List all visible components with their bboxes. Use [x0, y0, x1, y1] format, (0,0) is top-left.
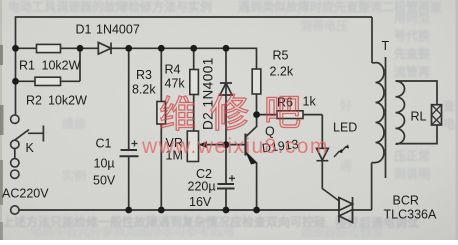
svg-text:C1: C1	[96, 137, 112, 151]
svg-text:实例: 实例	[62, 168, 86, 183]
svg-text:8.2k: 8.2k	[132, 83, 156, 97]
svg-text:RL: RL	[411, 110, 427, 124]
svg-text:AC220V: AC220V	[2, 187, 49, 201]
svg-text:维修: 维修	[62, 116, 87, 131]
svg-text:D1: D1	[76, 23, 92, 37]
svg-text:电路中各元件参数如图所示可参考选用: 电路中各元件参数如图所示可参考选用	[30, 223, 234, 238]
svg-text:则说明: 则说明	[394, 166, 430, 181]
svg-text:R5: R5	[273, 49, 289, 63]
svg-text:流管再: 流管再	[394, 64, 430, 79]
svg-text:修: 修	[210, 93, 249, 136]
svg-text:电: 电	[443, 116, 455, 131]
svg-text:www.weixiu8.com: www.weixiu8.com	[141, 135, 329, 158]
svg-text:R4: R4	[165, 63, 181, 77]
svg-text:用同型: 用同型	[393, 10, 430, 25]
svg-text:10k2W: 10k2W	[42, 59, 81, 73]
svg-text:吧: 吧	[264, 92, 301, 133]
svg-text:220µ: 220µ	[188, 180, 216, 194]
svg-text:电动工具调速器的故障检修方法与实例: 电动工具调速器的故障检修方法与实例	[8, 0, 212, 14]
svg-text:10k2W: 10k2W	[48, 94, 87, 108]
svg-text:T: T	[382, 39, 390, 53]
svg-text:先查整: 先查整	[394, 46, 430, 61]
svg-text:K: K	[26, 141, 35, 155]
svg-text:10µ: 10µ	[94, 157, 115, 171]
svg-text:通: 通	[340, 158, 352, 173]
svg-text:查: 查	[442, 98, 456, 113]
svg-text:TLC336A: TLC336A	[384, 208, 437, 222]
svg-text:1N4007: 1N4007	[96, 23, 140, 37]
svg-text:BCR: BCR	[393, 194, 419, 208]
svg-text:测得电压: 测得电压	[300, 18, 348, 33]
svg-text:R2: R2	[26, 94, 42, 108]
svg-text:压正常: 压正常	[394, 148, 430, 163]
svg-text:R3: R3	[136, 68, 152, 82]
svg-text:好: 好	[339, 98, 352, 113]
svg-text:2.2k: 2.2k	[270, 65, 294, 79]
svg-text:调速器即可恢复: 调速器即可恢复	[300, 224, 385, 239]
svg-text:R1: R1	[19, 59, 35, 73]
svg-text:号代换: 号代换	[394, 28, 431, 43]
svg-text:50V: 50V	[93, 174, 116, 188]
svg-text:16V: 16V	[189, 195, 212, 209]
svg-text:维: 维	[159, 94, 196, 135]
svg-text:1k: 1k	[303, 95, 317, 109]
svg-text:47k: 47k	[165, 77, 186, 91]
svg-text:LED: LED	[333, 121, 357, 135]
